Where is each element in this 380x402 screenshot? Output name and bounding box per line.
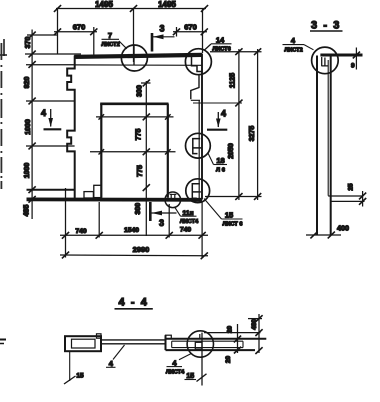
svg-text:2050: 2050 — [228, 143, 235, 159]
plan left wall — [67, 56, 75, 200]
foot block at opening left wall bottom — [94, 185, 102, 197]
svg-text:300: 300 — [137, 85, 144, 97]
section 4-4 right end extension lines — [204, 319, 262, 333]
label 11n/list4 with leader — [175, 207, 200, 225]
section 3-3 step dimension 25 — [328, 183, 366, 206]
svg-text:1495: 1495 — [158, 0, 176, 9]
section 3-3 flange top line — [320, 54, 362, 57]
svg-text:3 - 3: 3 - 3 — [311, 20, 341, 32]
plan top wall — [74, 55, 202, 65]
foot block at plan bottom-left corner — [84, 192, 93, 198]
svg-text:740: 740 — [180, 227, 192, 234]
opening right wall — [167, 104, 169, 198]
svg-text:9: 9 — [351, 63, 355, 70]
section 3-3 title — [310, 20, 343, 32]
svg-text:ЛИСТ2: ЛИСТ2 — [284, 48, 302, 54]
section 4-4 web — [101, 340, 166, 344]
svg-text:485: 485 — [24, 205, 31, 217]
section marker 4 left — [41, 108, 61, 129]
bottom dimension line 2990 — [60, 245, 208, 259]
svg-text:20: 20 — [227, 326, 234, 334]
detail circle 1 on top wall — [121, 45, 147, 71]
label 14/list6 with leader — [205, 36, 232, 53]
section marker 3 bottom — [150, 202, 176, 228]
section 4-4 detail circle — [187, 331, 213, 386]
section 3-3 wall shaft — [317, 54, 331, 236]
svg-text:4: 4 — [109, 359, 114, 368]
svg-text:3275: 3275 — [249, 126, 256, 142]
dimension 670 right — [173, 23, 208, 37]
detail circle 2 at top right corner — [185, 49, 211, 75]
dimension 15 at left end — [64, 351, 84, 384]
svg-text:3: 3 — [159, 24, 164, 34]
section 4-4 title — [115, 297, 153, 309]
svg-text:25: 25 — [348, 183, 355, 191]
section marker 4 right — [207, 109, 227, 130]
opening top edge — [100, 103, 168, 106]
detail circle 3 on right wall — [186, 133, 211, 158]
small detail circle 5 at opening right wall bottom — [165, 192, 181, 208]
section 4-4 right block — [166, 335, 267, 350]
svg-text:1125: 1125 — [229, 73, 236, 88]
label 4/list2 with leader (section 3-3) — [283, 36, 314, 54]
detail circle 4 on right wall lower — [186, 179, 210, 203]
svg-text:400: 400 — [337, 224, 349, 233]
svg-text:ЛИСТ4: ЛИСТ4 — [180, 219, 199, 225]
svg-text:Л 6: Л 6 — [216, 168, 226, 174]
page left margin text fragments — [0, 43, 2, 189]
svg-text:1000: 1000 — [25, 119, 32, 135]
right dimension column 3275 — [205, 48, 262, 200]
svg-text:7: 7 — [108, 31, 112, 40]
svg-text:4: 4 — [41, 108, 46, 118]
section 4-4 left block — [65, 334, 101, 351]
svg-text:1495: 1495 — [95, 0, 113, 9]
section marker 3 top — [152, 24, 175, 52]
svg-text:ЛИСТ4: ЛИСТ4 — [166, 370, 185, 376]
section 4-4 dimension 20/20 — [225, 324, 241, 363]
section 4-4 dimension 480 — [251, 314, 263, 354]
label 4/list4 with leader — [166, 354, 191, 376]
svg-text:11н: 11н — [182, 210, 193, 217]
svg-text:740: 740 — [75, 228, 87, 235]
top dimension line 1495+1495 — [54, 0, 208, 62]
dimension 670 left — [54, 23, 98, 57]
svg-text:ЛИСТ 6: ЛИСТ 6 — [223, 222, 243, 228]
svg-text:ЛИСТ2: ЛИСТ2 — [101, 42, 119, 48]
section 3-3 detail circle — [312, 47, 339, 74]
svg-text:18: 18 — [216, 156, 224, 165]
dimension 15 below circle — [185, 373, 207, 382]
section 3-3 top right mini dimension — [351, 48, 360, 70]
svg-text:4 - 4: 4 - 4 — [118, 297, 148, 309]
svg-text:300: 300 — [135, 203, 142, 215]
svg-text:670: 670 — [184, 23, 197, 32]
svg-text:ЛИСТ6: ЛИСТ6 — [212, 47, 230, 53]
svg-text:370: 370 — [25, 37, 32, 49]
svg-text:4: 4 — [172, 358, 177, 367]
right dimension column 1125/2050 — [228, 48, 242, 200]
svg-text:4: 4 — [221, 109, 226, 119]
svg-text:920: 920 — [24, 77, 31, 89]
svg-text:14: 14 — [216, 36, 225, 45]
svg-text:1000: 1000 — [24, 163, 31, 179]
svg-text:15: 15 — [225, 211, 233, 220]
left dimension column — [24, 30, 81, 220]
section 3-3 bottom dimension 400 — [306, 224, 349, 239]
label 7/list2 with leader — [101, 31, 126, 49]
svg-text:4: 4 — [291, 36, 296, 45]
label 4 under web with leader — [106, 345, 125, 368]
svg-text:670: 670 — [73, 23, 86, 32]
plan right wall — [191, 54, 242, 200]
plan bottom wall — [27, 190, 203, 200]
svg-text:480: 480 — [251, 319, 258, 330]
svg-text:2990: 2990 — [133, 245, 150, 254]
bottom dimension line 740/1540/740 — [60, 188, 208, 258]
page edge mark at 4-4 level — [0, 340, 6, 344]
svg-text:15: 15 — [76, 373, 84, 380]
opening left wall — [100, 104, 102, 198]
label 18/l6 with leader — [208, 153, 227, 174]
page edge mark top left — [0, 39, 7, 56]
svg-text:775: 775 — [137, 165, 144, 177]
svg-text:775: 775 — [135, 129, 142, 141]
label 15/list6 with leader — [204, 199, 243, 228]
central vertical dimension line 300/775/775/300 — [90, 80, 176, 236]
svg-text:1540: 1540 — [124, 227, 139, 234]
svg-text:3: 3 — [159, 218, 164, 228]
svg-text:20: 20 — [225, 356, 232, 364]
svg-text:15: 15 — [186, 373, 194, 380]
